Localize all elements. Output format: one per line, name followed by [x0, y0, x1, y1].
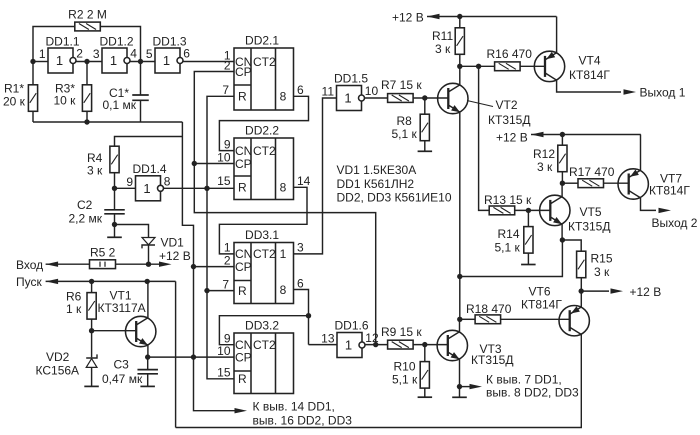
svg-text:R7 15 к: R7 15 к — [381, 78, 422, 92]
input Пуск arrow — [46, 279, 176, 284]
svg-text:2: 2 — [224, 254, 231, 268]
wire R3 stub — [86, 62, 88, 86]
svg-text:VT5: VT5 — [580, 205, 602, 219]
ground R14 — [521, 264, 536, 266]
wire VT7 emitter — [640, 135, 642, 171]
svg-text:R12: R12 — [533, 147, 555, 161]
counter DD2.1 — [234, 34, 294, 111]
wire R7 to VT2 base — [413, 97, 449, 99]
svg-text:CP: CP — [235, 157, 252, 171]
label VT1 — [98, 289, 146, 316]
svg-text:CT2: CT2 — [253, 55, 276, 69]
arrow +12V middle — [531, 132, 641, 137]
svg-text:R1*: R1* — [4, 82, 24, 96]
svg-text:10: 10 — [365, 84, 379, 98]
svg-text:R5 2: R5 2 — [90, 246, 116, 260]
arrow to supply pins annotation — [235, 408, 248, 413]
svg-text:КТ814Г: КТ814Г — [649, 184, 690, 198]
svg-text:15: 15 — [217, 366, 231, 380]
svg-text:R18 470: R18 470 — [466, 302, 512, 316]
svg-text:3 к: 3 к — [594, 265, 610, 279]
svg-text:3: 3 — [93, 47, 100, 61]
svg-text:Пуск: Пуск — [16, 275, 42, 289]
label R8 value — [392, 114, 418, 141]
svg-text:R13 15 к: R13 15 к — [484, 193, 532, 207]
counter DD2.2 — [234, 124, 294, 200]
svg-text:VT6: VT6 — [529, 285, 551, 299]
node DD3.1 pin6 branch junction — [306, 313, 311, 318]
transistor VT2 — [438, 83, 468, 113]
label VT6 — [521, 285, 562, 312]
label R14 value — [495, 227, 521, 255]
node R9 R10 junction — [422, 342, 427, 347]
wire R16 to VT4 base — [520, 65, 546, 67]
node CP-net supply junction — [191, 354, 196, 359]
resistor R13 — [489, 206, 515, 215]
inverter DD1.5 — [322, 72, 379, 111]
node DD1.2 input junction — [84, 59, 89, 64]
wire VT4 emitter — [556, 17, 558, 53]
arrow to ground pins annotation — [460, 384, 483, 389]
wire R3 bottom stub — [86, 111, 88, 122]
svg-text:CP: CP — [235, 260, 252, 274]
svg-text:R: R — [238, 372, 247, 386]
label VT2 — [488, 98, 530, 127]
svg-text:DD1 К561ЛН2: DD1 К561ЛН2 — [337, 177, 415, 191]
wire R6 to VT1 base — [91, 319, 93, 358]
svg-text:1 к: 1 к — [66, 302, 82, 316]
wire VD1 to +12V node — [148, 245, 150, 264]
svg-text:Выход 1: Выход 1 — [640, 86, 686, 100]
wire DD3.1 pin6 to DD3.2 CN — [294, 290, 309, 345]
svg-text:R2 2 М: R2 2 М — [68, 8, 107, 22]
svg-text:КТ814Г: КТ814Г — [569, 68, 610, 82]
resistor R6 — [87, 293, 96, 320]
svg-text:R: R — [238, 181, 247, 195]
resistor R11 — [455, 28, 464, 55]
node R13 R14 junction — [526, 208, 531, 213]
label ground pins annotation — [486, 373, 579, 400]
svg-text:К выв. 7 DD1,: К выв. 7 DD1, — [486, 373, 562, 387]
pin labels DD2.2 — [217, 138, 311, 189]
svg-text:DD1.6: DD1.6 — [335, 319, 369, 333]
wire R13 to VT5 base — [515, 209, 551, 211]
arrow output 2 — [659, 208, 672, 213]
resistor R3 — [82, 85, 91, 112]
svg-text:9: 9 — [224, 138, 231, 152]
label R6 value — [66, 290, 82, 317]
wire R18 left — [460, 318, 476, 320]
wire R11 bottom — [459, 54, 461, 66]
svg-text:Вход: Вход — [16, 258, 43, 272]
node R12 R17 VT5 junction — [560, 181, 565, 186]
svg-text:+12 В: +12 В — [630, 285, 662, 299]
label R12 value — [533, 147, 555, 174]
wire VT3 collector — [459, 319, 461, 332]
svg-text:1: 1 — [224, 241, 231, 255]
svg-text:DD3.1: DD3.1 — [245, 228, 279, 242]
inverter DD1.2 — [93, 35, 137, 74]
resistor R5 — [90, 260, 116, 269]
wire R8 to ground — [424, 141, 426, 152]
wire node to R17 — [562, 182, 577, 184]
wire R9 to VT3 base — [413, 344, 448, 346]
svg-text:DD3.2: DD3.2 — [245, 319, 279, 333]
ground R8 — [418, 150, 433, 152]
wire DD2.2 pin14 to DD3.1 CN — [219, 187, 307, 254]
svg-text:VT4: VT4 — [579, 54, 601, 68]
wire DD3.1 CP — [194, 266, 235, 268]
svg-text:1: 1 — [344, 91, 351, 106]
svg-text:1: 1 — [143, 181, 150, 196]
svg-text:6: 6 — [297, 83, 304, 97]
transistor VT1 — [126, 316, 156, 346]
resistor R15 — [577, 251, 586, 278]
wire collector node to R16 — [460, 65, 495, 67]
label R1 value — [3, 82, 26, 109]
svg-text:КТ315Д: КТ315Д — [488, 113, 530, 127]
node VT2 collector junction — [457, 64, 462, 69]
svg-text:КТ3117А: КТ3117А — [98, 301, 146, 315]
svg-text:20 к: 20 к — [3, 95, 26, 109]
node R4 DD1.4 C2 junction — [112, 186, 117, 191]
svg-text:8: 8 — [280, 181, 287, 195]
transistor VT4 — [534, 51, 564, 81]
node R11 top junction — [457, 14, 462, 19]
wire R13 feed vertical — [479, 66, 490, 210]
svg-text:10: 10 — [217, 344, 231, 358]
svg-text:C3: C3 — [114, 358, 130, 372]
wire R12 top — [561, 135, 563, 146]
resistor R17 — [578, 179, 604, 188]
svg-text:CT2: CT2 — [253, 144, 276, 158]
svg-text:CT2: CT2 — [253, 338, 276, 352]
input Вход arrow — [46, 262, 90, 267]
svg-text:7: 7 — [222, 278, 229, 292]
svg-text:0,1 мк: 0,1 мк — [103, 98, 137, 112]
wire VT5 emitter — [561, 224, 563, 240]
node R18 VT3 collector junction — [457, 317, 462, 322]
wire R14 top — [527, 210, 529, 226]
svg-text:1: 1 — [280, 247, 287, 261]
svg-text:R8: R8 — [397, 114, 413, 128]
node VT1 collector junction — [145, 279, 150, 284]
svg-text:10: 10 — [217, 151, 231, 165]
label VT4 — [569, 54, 610, 83]
label C1 value — [103, 86, 137, 112]
svg-text:R15: R15 — [591, 252, 613, 266]
svg-text:DD1.3: DD1.3 — [153, 35, 187, 49]
wire C3 top — [147, 357, 149, 370]
svg-text:2: 2 — [76, 47, 83, 61]
svg-text:DD1.2: DD1.2 — [100, 35, 134, 49]
wire oscillator rail to CP-net drop — [182, 122, 236, 411]
svg-text:DD2, DD3 К561ИЕ10: DD2, DD3 К561ИЕ10 — [337, 191, 452, 205]
svg-text:КС156А: КС156А — [36, 364, 80, 378]
svg-text:8: 8 — [280, 90, 287, 104]
wire R4 top — [115, 137, 183, 147]
svg-text:DD2.1: DD2.1 — [245, 34, 279, 48]
svg-text:5: 5 — [146, 47, 153, 61]
resistor R16 — [495, 62, 520, 71]
inverter DD1.4 — [126, 162, 170, 201]
node VT1 emitter C3 junction — [145, 354, 150, 359]
svg-text:R: R — [238, 90, 247, 104]
svg-text:13: 13 — [321, 332, 335, 346]
svg-text:5,1 к: 5,1 к — [392, 373, 418, 387]
node reset DD1.4 junction — [204, 186, 209, 191]
svg-text:+12 В: +12 В — [159, 249, 191, 263]
svg-text:3 к: 3 к — [87, 164, 103, 178]
svg-text:CP: CP — [235, 65, 252, 79]
svg-text:8: 8 — [164, 174, 171, 188]
wire emitter node down — [460, 240, 563, 277]
node R6 VD2 base junction — [89, 328, 94, 333]
svg-text:DD1.5: DD1.5 — [334, 72, 368, 86]
wire VT1 emitter — [147, 345, 149, 357]
node R12 top junction — [560, 132, 565, 137]
svg-text:2,2 мк: 2,2 мк — [69, 212, 103, 226]
wire VT4 collector to output1 — [557, 80, 621, 92]
node VD1 R5 junction — [146, 262, 151, 267]
label R11 value — [432, 29, 453, 56]
svg-text:8: 8 — [280, 283, 287, 297]
diode VD2 zener — [86, 354, 97, 386]
wire DD1.4 input stub — [115, 187, 136, 189]
pin labels DD3.1 — [222, 241, 304, 292]
wire C2 to VD1 — [115, 225, 149, 238]
wire to DD1.6 input — [309, 344, 338, 346]
wire C1 bottom — [140, 100, 142, 122]
wire C2 bottom — [114, 214, 116, 238]
wire VT2 collector — [459, 66, 461, 85]
svg-text:5,1 к: 5,1 к — [392, 127, 418, 141]
node VT2 emitter R18 branch — [457, 274, 462, 279]
svg-text:КТ315Д: КТ315Д — [471, 353, 513, 367]
svg-text:R17 470: R17 470 — [569, 165, 615, 179]
capacitor C1 — [132, 95, 149, 100]
inverter DD1.3 — [146, 35, 190, 74]
resistor R9 — [388, 340, 414, 349]
svg-text:3 к: 3 к — [537, 160, 553, 174]
svg-text:DD1.1: DD1.1 — [46, 35, 80, 49]
wire R10 to ground — [424, 388, 426, 397]
svg-text:1: 1 — [39, 47, 46, 61]
ground R10 — [418, 396, 433, 398]
transistor VT5 — [540, 195, 570, 225]
resistor R2 — [75, 22, 101, 31]
wire VT1 base — [92, 330, 137, 332]
svg-text:DD1.4: DD1.4 — [133, 162, 167, 176]
arrow +12V input node — [159, 262, 172, 267]
node DD1.6 output junction — [373, 342, 378, 347]
transistor VT3 — [437, 330, 467, 360]
label R15 value — [591, 252, 613, 280]
svg-text:+12 В: +12 В — [496, 131, 528, 145]
resistor R8 — [420, 114, 429, 141]
svg-text:11: 11 — [322, 85, 335, 99]
svg-text:9: 9 — [126, 175, 133, 189]
svg-text:1: 1 — [56, 53, 63, 68]
label R3 value — [54, 82, 77, 108]
wire oscillator bottom rail — [33, 121, 182, 123]
wire DD3.1 pin3 to DD1.5 — [294, 98, 337, 254]
transistor VT6 — [559, 306, 589, 336]
svg-text:7: 7 — [222, 83, 229, 97]
svg-text:выв. 16 DD2, DD3: выв. 16 DD2, DD3 — [253, 414, 353, 428]
svg-text:1: 1 — [110, 53, 117, 68]
svg-text:CN: CN — [235, 144, 252, 158]
wire DD1.4 output to DD2.2 R — [164, 187, 235, 189]
resistor R12 — [558, 145, 567, 172]
svg-text:VT2: VT2 — [496, 98, 518, 112]
svg-text:КТ315Д: КТ315Д — [568, 220, 610, 234]
node C2 VD1 ground junction — [112, 222, 117, 227]
wire oscillator top rail — [33, 27, 141, 123]
svg-text:4: 4 — [130, 47, 137, 61]
resistor R14 — [524, 227, 533, 254]
wire R14 to ground — [527, 253, 529, 265]
svg-text:10 к: 10 к — [54, 94, 77, 108]
svg-text:R11: R11 — [432, 29, 453, 43]
wire R4 to DD1.4 input — [114, 173, 116, 210]
node R6 top junction — [89, 279, 94, 284]
svg-text:3 к: 3 к — [435, 42, 451, 56]
svg-text:выв. 8 DD2, DD3: выв. 8 DD2, DD3 — [486, 386, 579, 400]
resistor R18 — [475, 315, 501, 324]
label parts list annotation — [337, 163, 452, 205]
wire DD2.1 pin6 to DD2.2 CN — [219, 96, 308, 150]
svg-text:15: 15 — [217, 174, 231, 188]
svg-text:+12 В: +12 В — [392, 11, 424, 25]
label VT2 leader line — [467, 101, 493, 107]
label VT5 — [568, 205, 610, 234]
resistor R7 — [388, 94, 414, 103]
svg-text:5,1 к: 5,1 к — [495, 241, 521, 255]
diode VD1 (TVS) — [142, 238, 155, 249]
arrow +12V top — [427, 14, 557, 19]
svg-text:R16 470: R16 470 — [487, 47, 533, 61]
pin labels DD2.1 — [222, 49, 304, 98]
ground VT3 — [452, 396, 467, 398]
resistor R10 — [420, 362, 429, 389]
resistor R4 — [110, 146, 119, 173]
svg-text:CP: CP — [235, 350, 252, 364]
capacitor C2 — [104, 210, 125, 214]
wire DD1.6 out to R9 — [365, 344, 388, 346]
svg-text:VD2: VD2 — [46, 350, 70, 364]
svg-text:6: 6 — [297, 277, 304, 291]
wire DD1.3 to DD2.1 CN — [183, 61, 234, 63]
wire VT5 collector — [561, 183, 563, 197]
counter DD3.1 — [234, 228, 294, 304]
inverter DD1.1 — [39, 35, 83, 74]
wire R8 top — [424, 98, 426, 115]
label R4 value — [87, 151, 103, 178]
label VD1 — [159, 236, 191, 264]
wire R11 top — [459, 17, 461, 29]
capacitor C3 — [137, 370, 158, 374]
svg-text:КТ814Г: КТ814Г — [521, 298, 562, 312]
svg-text:14: 14 — [297, 174, 311, 188]
svg-text:R: R — [238, 284, 247, 298]
wire reset vertical — [207, 96, 234, 379]
wire DD1.5 out to R7 — [365, 97, 388, 99]
wire emitter node to R15 — [562, 240, 581, 252]
wire R17 to VT7 base — [604, 182, 629, 184]
wire VT7 collector to output2 — [641, 198, 657, 211]
svg-text:К выв. 14 DD1,: К выв. 14 DD1, — [253, 400, 335, 414]
node DD3.1 CP junction — [191, 264, 196, 269]
wire R18 to VT6 base — [500, 318, 570, 320]
arrow +12V lower — [581, 288, 623, 293]
svg-text:DD2.2: DD2.2 — [245, 124, 279, 138]
transistor VT7 — [618, 169, 648, 199]
svg-text:R10: R10 — [394, 360, 416, 374]
resistor R1 — [28, 85, 37, 112]
label R10 value — [392, 360, 418, 387]
wire DD1.1 input — [33, 61, 48, 63]
wire DD3.1 R — [207, 290, 234, 292]
wire VT2 emitter down — [459, 112, 461, 319]
wire VT6 collector to bottom rail — [176, 334, 582, 427]
wire VT3 emitter to ground — [459, 359, 461, 397]
wire R6 top stub — [91, 281, 93, 293]
label C2 value — [69, 198, 103, 226]
svg-text:2: 2 — [224, 59, 231, 73]
svg-text:Выход 2: Выход 2 — [652, 216, 698, 230]
node R3 bottom junction — [84, 119, 89, 124]
wire R10 top — [424, 345, 426, 362]
wire R15 bottom — [580, 278, 582, 307]
node VT3 emitter tap — [457, 384, 462, 389]
node DD1.1 input junction — [30, 59, 35, 64]
wire DD1.1 to DD1.2 — [76, 61, 102, 63]
wire DD1.2 to DD1.3 — [130, 61, 155, 63]
wire VT1 emitter to DD3.2 CP — [148, 356, 234, 358]
wire R12 bottom — [561, 172, 563, 183]
node DD1.3 input junction — [138, 59, 143, 64]
svg-text:3: 3 — [297, 241, 304, 255]
svg-text:R14: R14 — [498, 227, 520, 241]
node reset DD3.1 junction — [204, 288, 209, 293]
svg-text:12: 12 — [365, 331, 379, 345]
svg-text:VD1 1.5КЕ30А: VD1 1.5КЕ30А — [337, 163, 417, 177]
node DD2.2 CP junction — [192, 161, 197, 166]
wire start line down to bottom rail — [175, 281, 177, 427]
svg-text:VD1: VD1 — [161, 236, 185, 250]
counter DD3.2 — [234, 319, 294, 394]
svg-text:6: 6 — [183, 47, 190, 61]
wire DD2.2 CP — [194, 163, 234, 165]
node R7 R8 junction — [422, 95, 427, 100]
node VT5 emitter junction — [560, 237, 565, 242]
label C3 value — [102, 358, 143, 387]
wire C3 bottom — [147, 374, 149, 387]
ground C3 — [140, 385, 155, 387]
svg-text:1: 1 — [163, 53, 170, 68]
node R13 branch junction — [476, 64, 481, 69]
label supply pins annotation — [253, 400, 353, 428]
ground VD2 — [84, 385, 99, 387]
ground C2 — [107, 236, 122, 238]
arrow output 1 — [624, 89, 637, 94]
label VD2 — [36, 350, 80, 378]
label VT7 — [649, 172, 690, 198]
wire R5 to +12V arrow — [116, 263, 162, 265]
wire branch to DD3.2 CN — [219, 316, 308, 345]
svg-text:CT2: CT2 — [253, 247, 276, 261]
